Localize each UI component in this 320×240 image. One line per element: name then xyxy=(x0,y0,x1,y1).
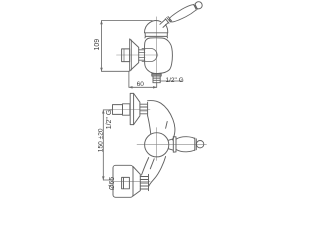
handle knob (bottom view) xyxy=(196,141,203,148)
extension line bottom inlet axis xyxy=(103,179,113,181)
top inlet nut xyxy=(123,104,130,115)
centerline horizontal top view xyxy=(117,54,159,56)
centerline bottom inlet xyxy=(114,181,150,183)
extension line top (dome top) xyxy=(102,20,153,22)
outlet flange (top view) xyxy=(152,74,161,76)
handle collar rings (top view) xyxy=(165,17,171,24)
arrow top of 150 dim xyxy=(102,110,105,114)
centerline handle axis bottom view xyxy=(137,143,207,145)
bottom inlet threads xyxy=(140,174,148,190)
centerline body circle vertical xyxy=(156,128,158,161)
dimension 109 vertical line xyxy=(101,21,103,72)
body top arm outer edge xyxy=(148,101,175,140)
centerline top inlet xyxy=(110,109,151,111)
handle hub (bottom view) xyxy=(168,139,173,150)
handle barrel (top view) xyxy=(169,5,196,22)
body bottom arm outer edge xyxy=(149,157,166,187)
wall nut facet line (top view) xyxy=(123,49,125,62)
leader line 1/2G (top view) xyxy=(161,80,182,82)
arrow right of 60 dim xyxy=(153,86,157,89)
bottom inlet nut inside cup xyxy=(122,177,130,188)
handle stem (top view) xyxy=(160,19,168,27)
threaded nipple (top view) xyxy=(139,50,145,60)
body bottom arm inner edge xyxy=(142,158,149,176)
wall nut (top view) xyxy=(122,49,130,62)
svg-text:109: 109 xyxy=(94,39,101,51)
svg-text:Ø65: Ø65 xyxy=(109,177,116,190)
extension line bottom (body bottom) xyxy=(102,70,129,72)
bottom inlet escutcheon cup xyxy=(113,165,133,197)
top inlet threads xyxy=(140,102,148,116)
svg-text:1/2" G: 1/2" G xyxy=(166,77,184,84)
body bottom arm duct line xyxy=(150,159,154,169)
centerline vertical top view xyxy=(155,17,157,83)
handle barrel end cap (bottom view) xyxy=(195,138,197,151)
bottom inlet cone xyxy=(133,167,140,197)
svg-text:1/2" G: 1/2" G xyxy=(106,110,113,130)
outlet threads (top view) xyxy=(153,76,160,83)
cartridge cap (top view) xyxy=(145,33,168,38)
escutcheon base disc (top view) xyxy=(129,39,131,71)
escutcheon cone (top view) xyxy=(130,39,139,71)
top inlet escutcheon disc xyxy=(130,93,133,124)
handle knob (top view) xyxy=(195,2,202,9)
body top arm inner duct line xyxy=(166,122,168,129)
handle knob neck (top view) xyxy=(194,4,198,10)
body top arm inner edge xyxy=(148,116,151,134)
arrow top of 109 dim xyxy=(100,21,103,25)
arrow bottom of 109 dim xyxy=(100,68,103,72)
handle collar (bottom view) xyxy=(173,137,176,153)
top inlet escutcheon cone xyxy=(134,93,140,124)
svg-text:150 ±20: 150 ±20 xyxy=(97,128,104,152)
dimension 150 +-20 vertical line xyxy=(102,110,104,180)
dome (top view) xyxy=(144,21,160,33)
top inlet stub pipe xyxy=(113,105,123,115)
arrow left of 60 dim xyxy=(129,86,133,89)
inlet boss U-shape inside body xyxy=(142,48,157,61)
body circle xyxy=(145,133,169,157)
svg-text:60: 60 xyxy=(137,81,145,88)
extension line top inlet axis xyxy=(103,109,112,111)
handle barrel (bottom view) xyxy=(176,137,195,152)
arrow bottom of 150 dim xyxy=(102,176,105,180)
faucet body (top view) xyxy=(144,38,172,74)
dimension 60 xyxy=(128,71,130,87)
